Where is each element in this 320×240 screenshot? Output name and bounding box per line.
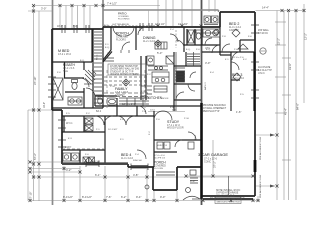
svg-text:7'-6": 7'-6"	[106, 195, 111, 199]
svg-text:10'-1 3/4": 10'-1 3/4"	[108, 129, 117, 131]
svg-text:37'-10": 37'-10"	[33, 77, 37, 85]
svg-text:1'-6": 1'-6"	[236, 110, 241, 114]
svg-text:3050 SH: 3050 SH	[133, 160, 142, 162]
svg-text:E.Q.: E.Q.	[186, 49, 191, 51]
svg-text:BATH 3: BATH 3	[204, 82, 207, 90]
svg-text:4'-8": 4'-8"	[133, 173, 138, 177]
svg-text:3'-0": 3'-0"	[205, 61, 210, 65]
svg-text:19'-6": 19'-6"	[288, 63, 292, 70]
svg-text:CARPET: CARPET	[229, 29, 239, 32]
svg-text:LNDY: LNDY	[65, 146, 72, 149]
svg-text:MUD: MUD	[157, 145, 162, 147]
svg-text:57'-2": 57'-2"	[33, 153, 37, 160]
svg-text:12'-0 x 1'-6": 12'-0 x 1'-6"	[122, 102, 136, 106]
svg-text:AT 2X6 SPAN TRUSS TOP: AT 2X6 SPAN TRUSS TOP	[110, 65, 138, 68]
svg-text:9'-0": 9'-0"	[160, 195, 165, 199]
svg-text:M.BATH: M.BATH	[63, 63, 76, 67]
svg-text:GUTTER ABOVE: GUTTER ABOVE	[112, 23, 130, 26]
svg-text:CARPET: CARPET	[115, 94, 125, 97]
svg-text:2'-10: 2'-10	[184, 118, 190, 120]
svg-text:13'-2 x 16'-0: 13'-2 x 16'-0	[58, 53, 72, 56]
svg-text:14'-0: 14'-0	[150, 110, 156, 112]
svg-text:10-0 PLATE: 10-0 PLATE	[258, 66, 271, 69]
svg-text:5'-0": 5'-0"	[73, 26, 78, 28]
svg-text:14'-1 3/4": 14'-1 3/4"	[178, 24, 188, 26]
svg-text:2X6 WALL: 2X6 WALL	[258, 29, 270, 32]
svg-text:3 CAR GARAGE: 3 CAR GARAGE	[198, 152, 228, 157]
svg-text:7'-4 1/2": 7'-4 1/2"	[107, 2, 117, 6]
svg-text:14'-0 1/2": 14'-0 1/2"	[155, 24, 165, 26]
svg-text:NOTE: INSTALL 3/4 FC: NOTE: INSTALL 3/4 FC	[216, 189, 241, 192]
svg-text:PER PLAN TYP: PER PLAN TYP	[203, 110, 220, 113]
svg-text:22'-2": 22'-2"	[277, 38, 281, 45]
svg-text:UNLESS NOTED OTHERW: UNLESS NOTED OTHERW	[110, 74, 140, 76]
svg-text:9'-11: 9'-11	[104, 25, 109, 27]
svg-text:FLOORS: FLOORS	[154, 168, 164, 170]
svg-text:13'-2 x 9'-6: 13'-2 x 9'-6	[63, 68, 75, 70]
svg-text:SEE ELEV FOR STYLE: SEE ELEV FOR STYLE	[217, 202, 241, 204]
svg-text:PRE ALIGNMENT LINE: PRE ALIGNMENT LINE	[259, 174, 262, 198]
svg-text:14'-4": 14'-4"	[262, 6, 269, 10]
svg-text:AT WALL INTERSECT: AT WALL INTERSECT	[203, 107, 227, 110]
svg-text:E.Q.: E.Q.	[80, 60, 85, 62]
svg-text:W.I.C.: W.I.C.	[66, 121, 73, 125]
svg-text:19'-3: 19'-3	[195, 134, 197, 140]
svg-text:FLOORS: FLOORS	[116, 39, 126, 42]
svg-text:5'-3": 5'-3"	[157, 51, 162, 55]
svg-text:11'-6 x 2'-0: 11'-6 x 2'-0	[233, 57, 244, 59]
svg-text:GYP BD AT GARAGE: GYP BD AT GARAGE	[216, 192, 239, 195]
svg-text:64'-0": 64'-0"	[296, 103, 300, 110]
svg-text:41'-4": 41'-4"	[284, 108, 288, 115]
svg-text:NOOK: NOOK	[162, 98, 169, 100]
svg-text:15'-8: 15'-8	[162, 145, 168, 147]
svg-text:CHORD BRG WALL W/ 2X6: CHORD BRG WALL W/ 2X6	[110, 68, 140, 71]
svg-text:6'-1": 6'-1"	[95, 173, 100, 177]
svg-text:16'-0": 16'-0"	[210, 195, 217, 199]
svg-text:8'-6": 8'-6"	[240, 195, 245, 199]
svg-text:WOOD FLOOR: WOOD FLOOR	[167, 127, 184, 130]
svg-text:37'-2": 37'-2"	[213, 161, 217, 168]
svg-text:8'-0 1/2": 8'-0 1/2"	[82, 195, 92, 199]
svg-text:PRE ALIGNMENT LINE: PRE ALIGNMENT LINE	[259, 136, 262, 160]
svg-text:3050 SH: 3050 SH	[91, 161, 100, 163]
svg-text:9'-4": 9'-4"	[136, 195, 141, 199]
svg-text:TILE: TILE	[63, 71, 68, 73]
svg-text:8-0 CLG TYP: 8-0 CLG TYP	[258, 70, 272, 72]
svg-text:12'-2": 12'-2"	[304, 33, 308, 40]
svg-text:CONC: CONC	[204, 161, 211, 164]
svg-text:11-2 x 12-0: 11-2 x 12-0	[143, 40, 156, 43]
svg-text:11-0 x 12-0: 11-0 x 12-0	[232, 77, 245, 80]
svg-text:KITCHEN: KITCHEN	[148, 96, 163, 100]
svg-text:PATIO: PATIO	[118, 11, 127, 15]
svg-text:9'-0": 9'-0"	[190, 179, 195, 183]
svg-text:W.I.C.: W.I.C.	[97, 54, 99, 60]
svg-text:6'-2": 6'-2"	[121, 195, 126, 199]
svg-text:SLOPE 1/4: SLOPE 1/4	[154, 158, 166, 160]
svg-text:10'-7": 10'-7"	[57, 26, 63, 28]
svg-text:3'-0": 3'-0"	[41, 7, 46, 11]
svg-text:FLOORING: FLOORING	[118, 19, 130, 21]
svg-text:8'-0 1/2": 8'-0 1/2"	[63, 195, 73, 199]
svg-text:BA 2: BA 2	[96, 110, 102, 113]
svg-text:AT 16 OC: AT 16 OC	[258, 32, 268, 35]
svg-text:4'-2": 4'-2"	[66, 168, 71, 172]
svg-text:E.Q.: E.Q.	[105, 47, 110, 49]
svg-text:PROVIDE SOLID BLK: PROVIDE SOLID BLK	[203, 105, 226, 107]
svg-text:16'-0": 16'-0"	[43, 102, 46, 108]
svg-text:1'-10: 1'-10	[110, 86, 116, 88]
svg-text:16x7 OH GARAGE DOOR: 16x7 OH GARAGE DOOR	[217, 198, 243, 201]
svg-text:U.N.O.: U.N.O.	[258, 73, 265, 75]
svg-text:WALLS AND CLG: WALLS AND CLG	[216, 194, 235, 197]
svg-text:27'-10": 27'-10"	[29, 192, 33, 200]
svg-text:11-0 x 12-6: 11-0 x 12-6	[121, 157, 134, 160]
svg-text:E.Q.: E.Q.	[206, 49, 211, 51]
